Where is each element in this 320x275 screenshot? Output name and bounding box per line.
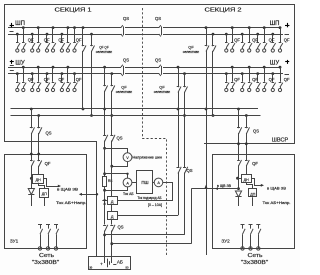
svg-text:QF: QF <box>28 77 34 82</box>
svg-text:QF: QF <box>28 37 34 42</box>
svg-text:ШВСР: ШВСР <box>272 138 289 144</box>
svg-text:Сеть: Сеть <box>39 253 54 259</box>
svg-text:QS: QS <box>123 58 129 63</box>
svg-text:QF: QF <box>284 37 290 42</box>
svg-text:[0 – 10А]: [0 – 10А] <box>148 203 162 207</box>
svg-text:Сеть: Сеть <box>248 253 263 259</box>
svg-text:в ЩАВ ЗВ: в ЩАВ ЗВ <box>57 188 79 192</box>
svg-text:"3х380В": "3х380В" <box>241 260 269 266</box>
svg-text:Ток АБ: Ток АБ <box>123 192 134 196</box>
svg-text:QF: QF <box>159 85 165 90</box>
svg-text:Ток подзаряд АБ: Ток подзаряд АБ <box>138 196 163 200</box>
svg-text:QS: QS <box>45 131 51 136</box>
svg-text:в ЩАВ ЗВ: в ЩАВ ЗВ <box>267 187 287 191</box>
svg-text:QS: QS <box>155 16 161 21</box>
svg-text:QS: QS <box>123 16 129 21</box>
svg-text:"3х380В": "3х380В" <box>32 260 60 266</box>
svg-text:в ЩВ ЗВ: в ЩВ ЗВ <box>217 184 231 188</box>
svg-text:QF: QF <box>269 77 275 82</box>
svg-text:QF: QF <box>58 37 64 42</box>
svg-text:ШП: ШП <box>15 21 25 27</box>
svg-text:ДП: ДП <box>250 192 255 196</box>
svg-text:QF: QF <box>44 77 50 82</box>
svg-text:ПШ: ПШ <box>141 180 148 185</box>
svg-text:АБ: АБ <box>117 260 123 265</box>
svg-text:QF: QF <box>252 77 258 82</box>
svg-text:QS: QS <box>186 168 192 173</box>
svg-text:QS: QS <box>117 225 123 230</box>
svg-text:ДН: ДН <box>36 178 41 182</box>
svg-text:ШУ: ШУ <box>270 60 279 66</box>
svg-text:ШП: ШП <box>270 21 280 27</box>
svg-text:QF: QF <box>44 37 50 42</box>
svg-text:QF: QF <box>284 77 290 82</box>
svg-text:QF: QF <box>252 37 258 42</box>
svg-text:Д: Д <box>111 200 114 204</box>
svg-text:Напряжение шин: Напряжение шин <box>133 155 162 159</box>
svg-text:QF: QF <box>76 37 82 42</box>
svg-text:QF: QF <box>234 37 240 42</box>
svg-text:ШУ: ШУ <box>15 60 24 66</box>
svg-text:селективн: селективн <box>183 50 200 54</box>
svg-text:V: V <box>126 156 129 160</box>
svg-text:Ток АБ+Напр.: Ток АБ+Напр. <box>263 200 291 205</box>
svg-text:QF: QF <box>234 77 240 82</box>
svg-text:QF: QF <box>45 161 51 166</box>
svg-text:QF QF: QF QF <box>99 45 109 50</box>
svg-text:Ток АБ+Напр.: Ток АБ+Напр. <box>56 200 87 205</box>
svg-text:QF: QF <box>252 161 258 166</box>
svg-text:+: + <box>100 261 103 266</box>
svg-text:QF: QF <box>269 37 275 42</box>
svg-text:ЗУ2: ЗУ2 <box>221 239 230 244</box>
svg-text:селективн: селективн <box>116 90 133 94</box>
svg-text:ЗУ1: ЗУ1 <box>10 239 19 244</box>
svg-text:QF: QF <box>121 85 127 90</box>
svg-text:ДП: ДП <box>42 192 47 196</box>
svg-text:QS: QS <box>116 136 122 141</box>
svg-text:селективн: селективн <box>96 50 113 54</box>
svg-text:QF: QF <box>76 77 82 82</box>
svg-text:QS: QS <box>155 58 161 63</box>
svg-text:СЕКЦИЯ 1: СЕКЦИЯ 1 <box>55 8 92 14</box>
svg-text:СЕКЦИЯ 2: СЕКЦИЯ 2 <box>205 8 242 14</box>
svg-text:Д: Д <box>111 215 114 219</box>
svg-text:QF: QF <box>188 45 194 50</box>
svg-text:QF: QF <box>58 77 64 82</box>
svg-text:ДН: ДН <box>244 178 249 182</box>
svg-text:селективн: селективн <box>154 90 171 94</box>
svg-text:QS: QS <box>253 129 259 134</box>
